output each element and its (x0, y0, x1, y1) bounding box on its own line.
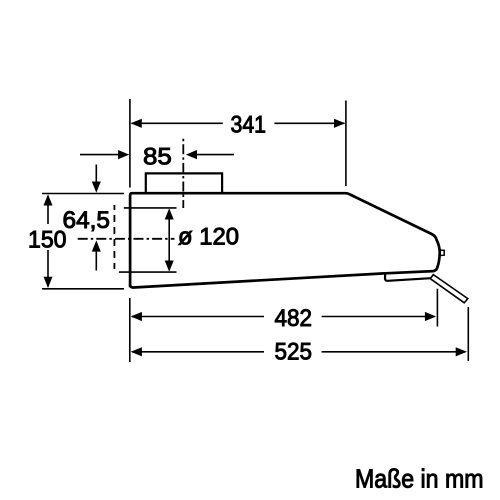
svg-text:64,5: 64,5 (63, 207, 111, 234)
extension line left top (129, 99, 131, 188)
handle rod (430, 275, 468, 303)
hood bottom edge (130, 273, 385, 287)
svg-text:341: 341 (231, 111, 267, 138)
extension line hood bottom left (42, 288, 124, 290)
hood body outline (130, 193, 440, 287)
dimension 85 left arrow (80, 154, 126, 156)
extension line left bottom (129, 298, 131, 362)
svg-text:150: 150 (28, 226, 67, 253)
duct center line (182, 139, 184, 208)
extension line right 341 (345, 101, 347, 187)
svg-text:482: 482 (275, 305, 313, 332)
duct outlet (146, 173, 222, 192)
extension line hood top left (42, 193, 124, 195)
dimension 525 (132, 351, 466, 353)
hole center line (78, 238, 175, 240)
svg-text:525: 525 (275, 338, 313, 365)
side tab (440, 250, 444, 255)
extension line 525 (467, 307, 469, 361)
hole top extent line (124, 207, 177, 209)
dimension 85 right arrow (189, 154, 234, 156)
extension line 482 (436, 289, 438, 327)
dimension 341 (132, 122, 345, 124)
hidden hole edge dashed (113, 205, 115, 269)
svg-text:Maße in mm: Maße in mm (355, 464, 484, 494)
svg-text:85: 85 (143, 143, 172, 170)
hole bottom extent line (119, 271, 177, 273)
dimension 64,5 top arrow (95, 165, 97, 191)
svg-text:ø 120: ø 120 (178, 223, 239, 250)
dimension 482 (132, 316, 435, 318)
dimension arrow o120 (168, 210, 170, 270)
dimension 64,5 bottom arrow (95, 243, 97, 271)
dimension 150 (47, 196, 49, 287)
filter lip bar (385, 273, 431, 281)
